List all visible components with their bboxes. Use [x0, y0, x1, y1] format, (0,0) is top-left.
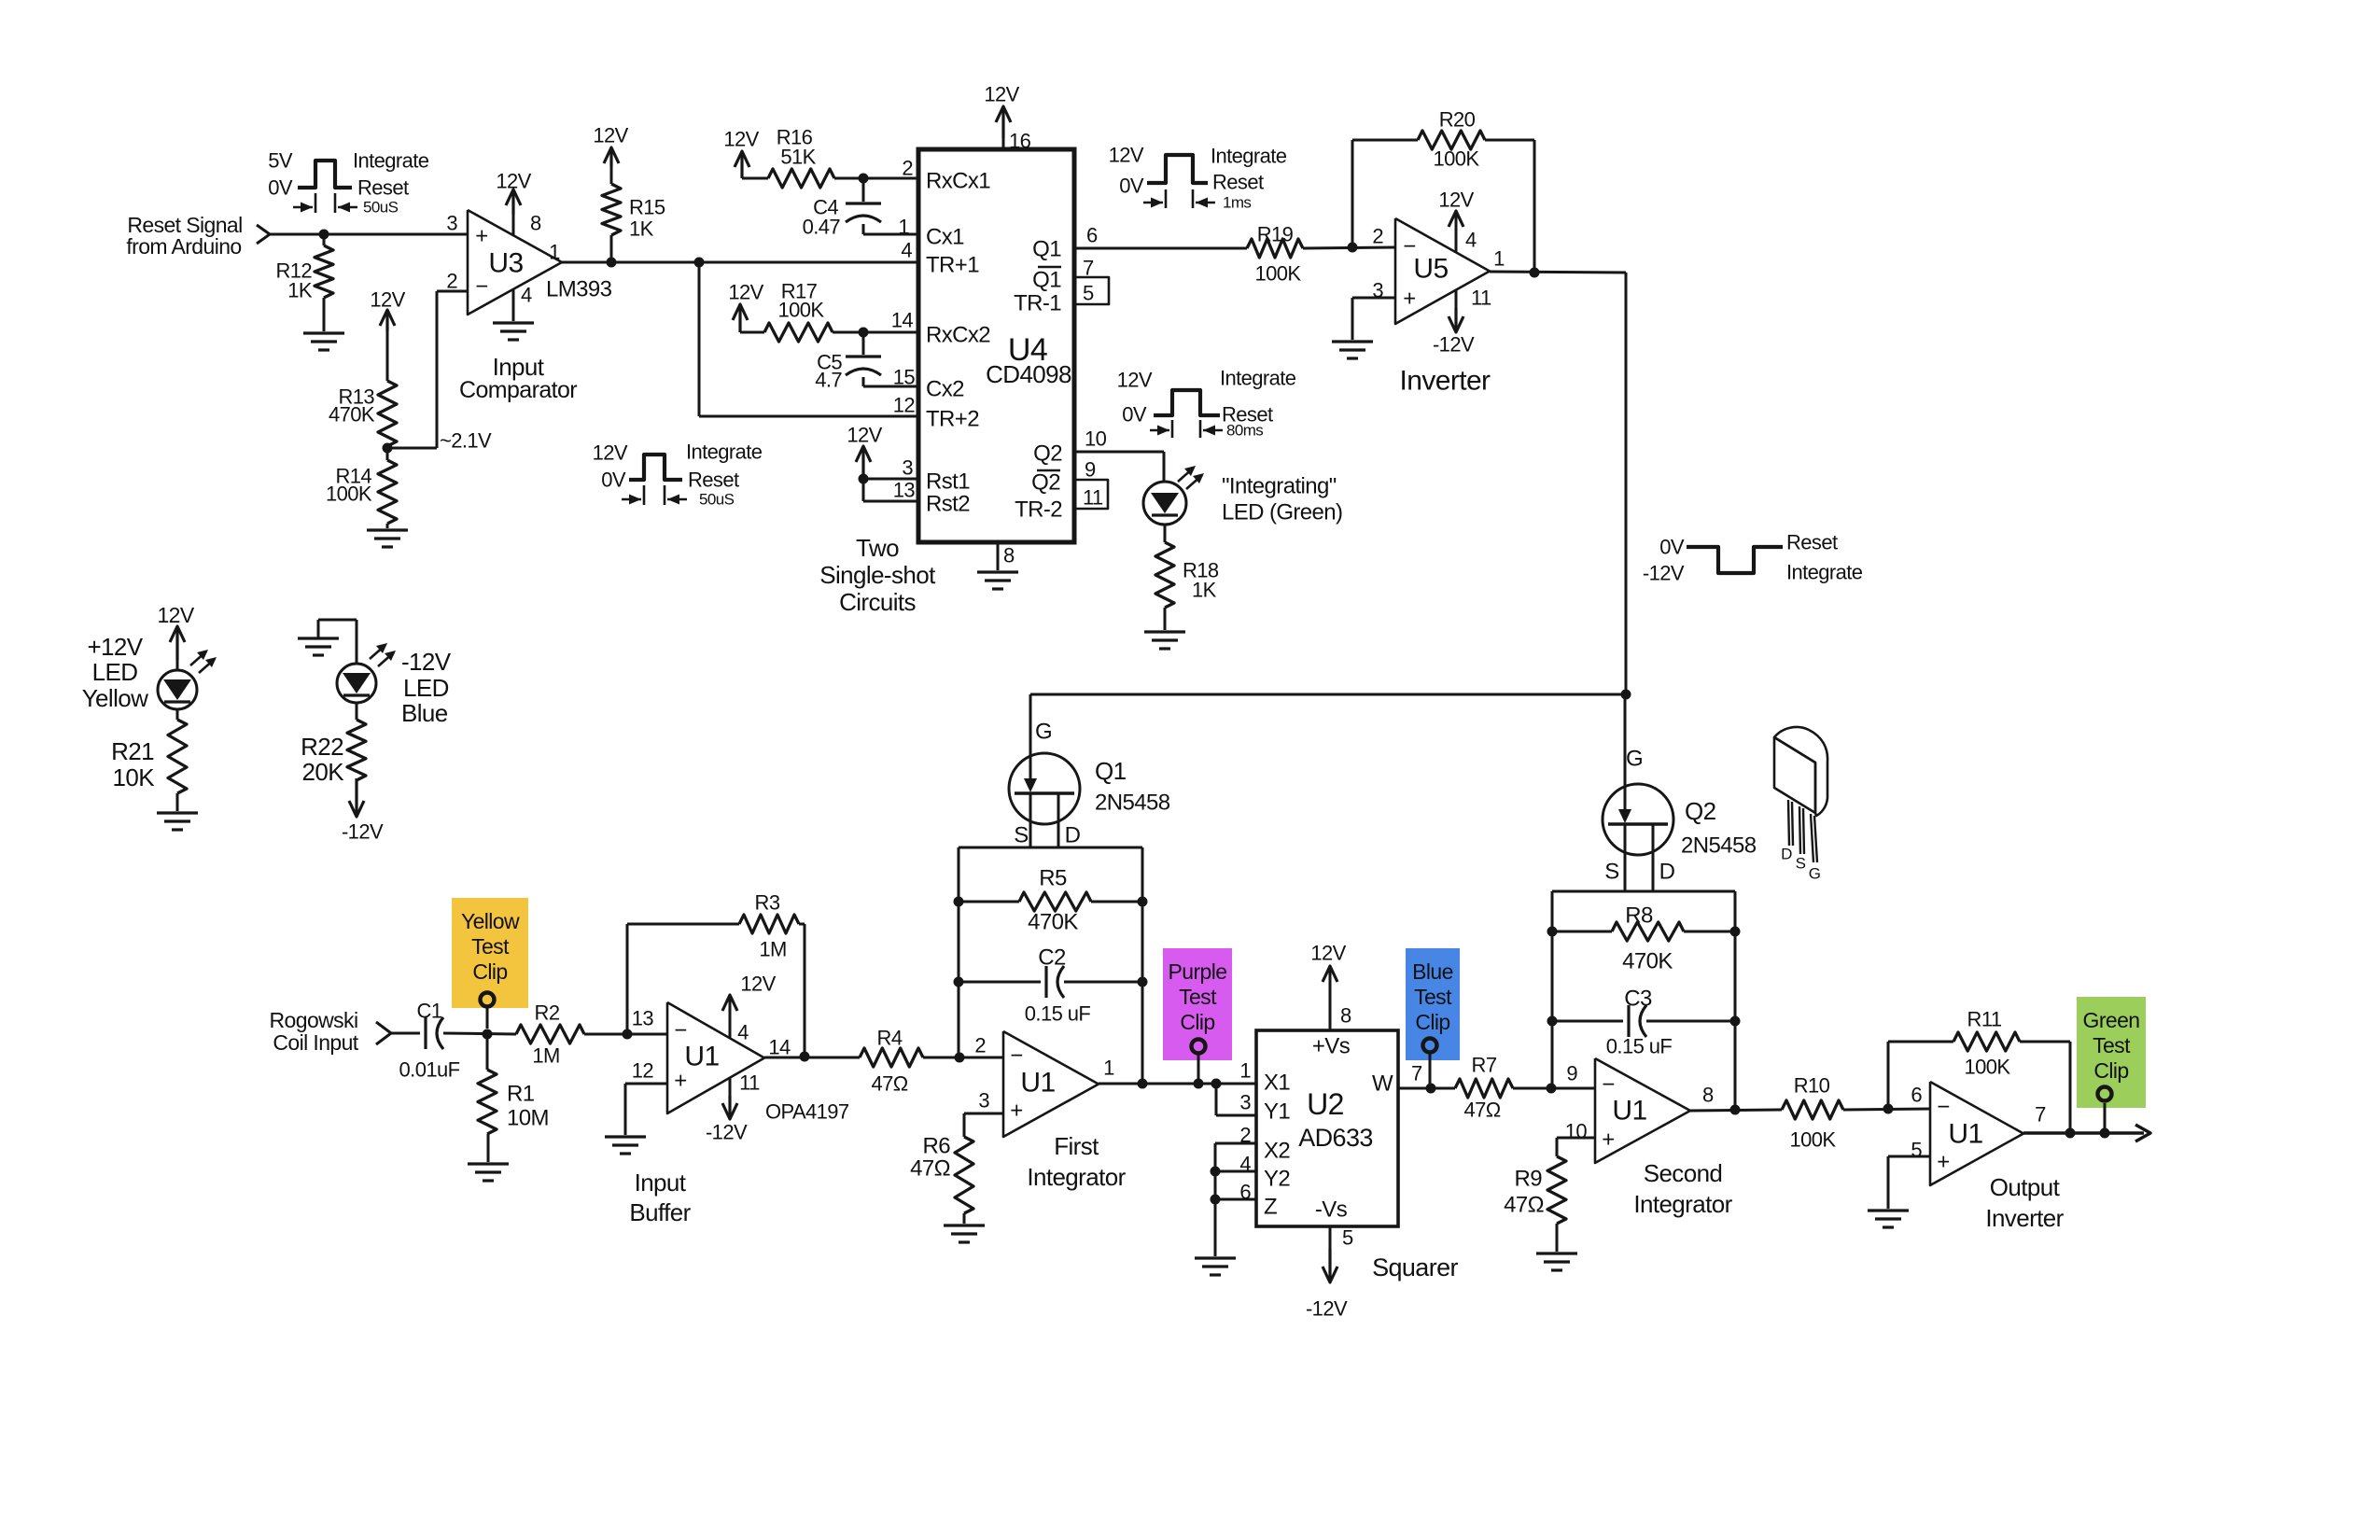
- svg-text:C1: C1: [417, 1000, 442, 1023]
- svg-text:R15: R15: [629, 196, 665, 219]
- svg-text:5: 5: [1342, 1226, 1353, 1250]
- svg-text:-12V: -12V: [401, 648, 452, 676]
- svg-text:U1: U1: [1948, 1119, 1982, 1150]
- svg-text:47Ω: 47Ω: [910, 1156, 950, 1182]
- svg-text:11: 11: [1471, 287, 1491, 310]
- svg-text:12V: 12V: [847, 424, 882, 447]
- svg-text:Circuits: Circuits: [839, 588, 916, 616]
- svg-text:Output: Output: [1990, 1173, 2061, 1201]
- svg-text:12: 12: [893, 394, 916, 417]
- svg-text:1: 1: [1239, 1059, 1251, 1083]
- svg-text:6: 6: [1239, 1181, 1251, 1204]
- svg-text:1: 1: [549, 241, 560, 264]
- svg-text:13: 13: [632, 1007, 654, 1030]
- svg-text:8: 8: [530, 212, 541, 235]
- svg-text:R5: R5: [1039, 866, 1067, 891]
- svg-text:+: +: [1937, 1150, 1949, 1175]
- svg-text:10: 10: [1085, 427, 1107, 451]
- svg-text:Test: Test: [2093, 1033, 2131, 1057]
- svg-text:Reset: Reset: [688, 469, 739, 492]
- svg-text:Blue: Blue: [401, 699, 448, 727]
- svg-text:0V: 0V: [1122, 403, 1147, 427]
- svg-text:6: 6: [1911, 1084, 1922, 1107]
- svg-text:G: G: [1809, 865, 1821, 883]
- svg-text:Test: Test: [1179, 985, 1217, 1009]
- svg-text:Reset: Reset: [357, 176, 409, 200]
- svg-text:+Vs: +Vs: [1312, 1034, 1351, 1059]
- svg-text:100K: 100K: [1434, 147, 1480, 171]
- svg-text:Q1: Q1: [1095, 757, 1127, 785]
- svg-text:Cx2: Cx2: [926, 377, 964, 402]
- svg-text:CD4098: CD4098: [986, 360, 1071, 388]
- svg-text:Purple: Purple: [1169, 959, 1227, 984]
- svg-text:47Ω: 47Ω: [1463, 1099, 1500, 1122]
- svg-text:R11: R11: [1967, 1008, 2002, 1031]
- svg-text:11: 11: [1083, 486, 1103, 510]
- svg-text:Q2: Q2: [1033, 441, 1062, 467]
- svg-text:Integrate: Integrate: [1786, 561, 1863, 584]
- svg-text:Test: Test: [471, 934, 510, 959]
- svg-text:Rst2: Rst2: [926, 492, 970, 517]
- svg-text:-12V: -12V: [1306, 1297, 1348, 1321]
- svg-text:1ms: 1ms: [1223, 194, 1251, 212]
- svg-text:2N5458: 2N5458: [1095, 791, 1170, 816]
- svg-text:-12V: -12V: [342, 820, 384, 844]
- svg-text:"Integrating": "Integrating": [1222, 474, 1337, 499]
- svg-text:12V: 12V: [1117, 369, 1153, 392]
- svg-text:W: W: [1372, 1071, 1393, 1097]
- svg-text:Integrate: Integrate: [1220, 367, 1296, 390]
- svg-text:4: 4: [901, 239, 912, 262]
- svg-text:5: 5: [1911, 1139, 1922, 1162]
- svg-text:7: 7: [2035, 1103, 2046, 1127]
- svg-text:Rst1: Rst1: [926, 469, 970, 495]
- svg-text:2N5458: 2N5458: [1681, 833, 1757, 859]
- svg-text:R2: R2: [535, 1001, 560, 1025]
- svg-text:Input: Input: [635, 1169, 687, 1197]
- svg-text:12V: 12V: [740, 973, 776, 996]
- svg-text:U2: U2: [1307, 1087, 1344, 1121]
- svg-text:Green: Green: [2083, 1008, 2140, 1032]
- svg-text:−: −: [1010, 1043, 1022, 1069]
- svg-text:R8: R8: [1625, 903, 1653, 929]
- svg-text:U5: U5: [1413, 254, 1448, 285]
- svg-text:0V: 0V: [268, 176, 293, 200]
- svg-text:Buffer: Buffer: [629, 1198, 691, 1226]
- svg-text:16: 16: [1009, 130, 1031, 153]
- svg-text:1K: 1K: [287, 279, 313, 302]
- svg-text:12V: 12V: [1310, 942, 1346, 965]
- svg-text:1K: 1K: [1192, 579, 1217, 602]
- svg-text:Z: Z: [1264, 1195, 1277, 1220]
- svg-text:Q2: Q2: [1031, 470, 1060, 496]
- svg-text:Q1: Q1: [1032, 268, 1061, 293]
- svg-text:0V: 0V: [601, 469, 626, 492]
- svg-text:8: 8: [1340, 1004, 1351, 1028]
- svg-text:0.47: 0.47: [803, 216, 841, 239]
- svg-text:12V: 12V: [1109, 144, 1144, 167]
- svg-text:4.7: 4.7: [815, 369, 842, 392]
- svg-text:12V: 12V: [157, 603, 194, 627]
- svg-text:5: 5: [1083, 282, 1094, 305]
- svg-text:U1: U1: [684, 1042, 719, 1072]
- svg-text:−: −: [1937, 1095, 1949, 1120]
- svg-text:47Ω: 47Ω: [871, 1072, 907, 1096]
- svg-text:12: 12: [632, 1059, 654, 1083]
- svg-text:LED: LED: [92, 658, 138, 686]
- svg-text:U1: U1: [1020, 1068, 1055, 1099]
- svg-text:R20: R20: [1439, 108, 1476, 132]
- svg-text:Integrate: Integrate: [1211, 145, 1287, 168]
- svg-text:47Ω: 47Ω: [1504, 1193, 1544, 1218]
- svg-text:First: First: [1054, 1132, 1099, 1160]
- svg-text:Y2: Y2: [1264, 1167, 1290, 1192]
- svg-text:R22: R22: [301, 733, 343, 761]
- svg-text:50uS: 50uS: [699, 491, 735, 509]
- svg-text:12V: 12V: [370, 288, 405, 312]
- svg-text:LM393: LM393: [546, 277, 612, 302]
- svg-text:0.15 uF: 0.15 uF: [1025, 1002, 1091, 1026]
- svg-text:0V: 0V: [1659, 536, 1685, 559]
- svg-text:Inverter: Inverter: [1400, 366, 1491, 397]
- svg-text:from Arduino: from Arduino: [126, 234, 241, 259]
- svg-text:8: 8: [1003, 544, 1015, 567]
- svg-text:12V: 12V: [728, 281, 763, 304]
- svg-text:RxCx2: RxCx2: [926, 323, 990, 348]
- svg-text:1: 1: [1493, 247, 1505, 271]
- svg-text:~2.1V: ~2.1V: [440, 429, 492, 453]
- svg-text:TR-2: TR-2: [1015, 497, 1062, 523]
- svg-text:12V: 12V: [593, 124, 628, 147]
- svg-text:100K: 100K: [778, 299, 825, 322]
- svg-text:9: 9: [1085, 458, 1096, 482]
- svg-text:100K: 100K: [1965, 1056, 2011, 1079]
- svg-text:+: +: [1602, 1127, 1614, 1153]
- svg-text:3: 3: [1239, 1091, 1251, 1114]
- svg-text:−: −: [475, 274, 487, 300]
- svg-text:G: G: [1626, 747, 1643, 772]
- svg-text:20K: 20K: [302, 758, 345, 786]
- svg-text:S: S: [1014, 823, 1028, 848]
- svg-text:Clip: Clip: [1415, 1010, 1449, 1034]
- svg-text:Reset: Reset: [1212, 171, 1264, 194]
- svg-text:R10: R10: [1794, 1074, 1830, 1098]
- svg-text:2: 2: [446, 270, 457, 293]
- svg-text:Yellow: Yellow: [82, 684, 148, 712]
- svg-text:1: 1: [898, 216, 909, 239]
- svg-text:6: 6: [1086, 224, 1098, 247]
- svg-text:8: 8: [1702, 1084, 1714, 1107]
- svg-text:Y1: Y1: [1264, 1099, 1290, 1125]
- svg-text:51K: 51K: [780, 146, 816, 169]
- svg-text:470K: 470K: [1622, 949, 1673, 974]
- svg-text:100K: 100K: [1255, 262, 1302, 286]
- svg-text:Two: Two: [856, 534, 899, 562]
- svg-text:1: 1: [1103, 1057, 1114, 1080]
- svg-text:U3: U3: [488, 248, 523, 279]
- svg-text:R19: R19: [1257, 223, 1294, 246]
- svg-text:10: 10: [1565, 1120, 1588, 1143]
- svg-text:3: 3: [902, 456, 913, 480]
- svg-text:Cx1: Cx1: [926, 225, 964, 250]
- svg-text:1M: 1M: [759, 938, 786, 961]
- svg-text:3: 3: [446, 212, 457, 235]
- svg-text:Reset: Reset: [1786, 531, 1838, 554]
- svg-text:Clip: Clip: [472, 959, 507, 984]
- svg-text:2: 2: [974, 1034, 986, 1057]
- svg-text:-12V: -12V: [706, 1121, 748, 1144]
- svg-text:−: −: [1602, 1072, 1614, 1098]
- svg-text:LED: LED: [403, 674, 449, 702]
- svg-text:Coil Input: Coil Input: [273, 1030, 358, 1055]
- svg-text:Blue: Blue: [1412, 959, 1453, 984]
- svg-text:10M: 10M: [507, 1106, 549, 1131]
- svg-text:4: 4: [521, 284, 532, 307]
- svg-text:12V: 12V: [984, 83, 1019, 106]
- svg-text:Yellow: Yellow: [461, 909, 520, 933]
- svg-text:OPA4197: OPA4197: [765, 1100, 849, 1124]
- svg-text:+: +: [674, 1069, 686, 1094]
- svg-text:1M: 1M: [532, 1044, 559, 1068]
- svg-text:12V: 12V: [723, 128, 759, 151]
- svg-text:7: 7: [1083, 257, 1094, 280]
- svg-text:14: 14: [891, 309, 914, 332]
- svg-text:2: 2: [1372, 225, 1383, 248]
- svg-text:0.01uF: 0.01uF: [399, 1058, 460, 1082]
- svg-text:Integrate: Integrate: [686, 441, 763, 464]
- svg-text:TR-1: TR-1: [1014, 291, 1061, 316]
- svg-text:+: +: [1010, 1099, 1022, 1124]
- svg-text:R1: R1: [507, 1082, 535, 1107]
- svg-text:R9: R9: [1515, 1167, 1543, 1192]
- svg-text:Comparator: Comparator: [459, 377, 577, 403]
- svg-text:R6: R6: [923, 1134, 951, 1159]
- svg-text:R3: R3: [755, 891, 780, 915]
- svg-text:C2: C2: [1038, 945, 1066, 971]
- svg-text:R21: R21: [111, 737, 154, 765]
- svg-text:TR+1: TR+1: [926, 253, 979, 278]
- svg-text:7: 7: [1411, 1062, 1422, 1085]
- svg-text:X2: X2: [1264, 1139, 1290, 1164]
- svg-text:2: 2: [902, 157, 913, 180]
- svg-text:Squarer: Squarer: [1372, 1253, 1458, 1281]
- svg-text:Q1: Q1: [1032, 237, 1061, 262]
- svg-text:Clip: Clip: [2093, 1058, 2128, 1083]
- svg-text:-12V: -12V: [1643, 562, 1685, 585]
- svg-text:470K: 470K: [329, 403, 375, 427]
- svg-text:C3: C3: [1624, 987, 1652, 1012]
- svg-text:G: G: [1035, 720, 1052, 745]
- svg-text:Integrate: Integrate: [353, 149, 429, 173]
- svg-text:Rogowski: Rogowski: [270, 1008, 358, 1032]
- svg-text:11: 11: [739, 1071, 760, 1095]
- svg-text:Q2: Q2: [1685, 797, 1716, 825]
- svg-text:4: 4: [1465, 229, 1477, 252]
- svg-text:15: 15: [893, 366, 916, 389]
- svg-text:+: +: [475, 224, 487, 249]
- svg-text:3: 3: [978, 1089, 989, 1113]
- svg-text:Clip: Clip: [1180, 1010, 1214, 1034]
- svg-text:R7: R7: [1472, 1054, 1497, 1077]
- svg-text:D: D: [1781, 846, 1792, 863]
- svg-text:Inverter: Inverter: [1985, 1204, 2064, 1232]
- svg-text:2: 2: [1239, 1124, 1251, 1147]
- svg-text:-Vs: -Vs: [1315, 1197, 1348, 1223]
- svg-text:D: D: [1065, 823, 1081, 848]
- svg-text:U1: U1: [1612, 1096, 1646, 1127]
- svg-text:Second: Second: [1644, 1159, 1723, 1187]
- svg-text:LED (Green): LED (Green): [1222, 500, 1342, 525]
- svg-text:+12V: +12V: [87, 633, 143, 661]
- svg-text:Integrator: Integrator: [1027, 1163, 1126, 1191]
- svg-text:Reset: Reset: [1222, 403, 1273, 427]
- svg-text:+: +: [1403, 287, 1415, 312]
- svg-text:5V: 5V: [268, 149, 293, 173]
- svg-text:-12V: -12V: [1433, 333, 1475, 357]
- svg-text:4: 4: [737, 1021, 749, 1044]
- svg-text:TR+2: TR+2: [926, 407, 979, 432]
- svg-text:9: 9: [1566, 1062, 1577, 1085]
- svg-text:RxCx1: RxCx1: [926, 169, 990, 194]
- svg-text:100K: 100K: [1790, 1128, 1837, 1152]
- svg-text:Single-shot: Single-shot: [819, 561, 936, 589]
- svg-text:470K: 470K: [1028, 910, 1078, 935]
- svg-text:Integrator: Integrator: [1633, 1190, 1732, 1218]
- svg-text:Test: Test: [1414, 985, 1452, 1009]
- svg-text:100K: 100K: [326, 483, 372, 506]
- svg-text:D: D: [1659, 860, 1675, 885]
- svg-text:S: S: [1604, 860, 1618, 885]
- svg-text:X1: X1: [1264, 1071, 1290, 1096]
- svg-text:4: 4: [1239, 1153, 1251, 1176]
- svg-text:12V: 12V: [496, 170, 531, 193]
- svg-text:14: 14: [768, 1036, 791, 1059]
- svg-text:AD633: AD633: [1298, 1124, 1373, 1152]
- svg-text:0V: 0V: [1119, 175, 1144, 198]
- svg-text:S: S: [1796, 855, 1806, 873]
- svg-text:50uS: 50uS: [363, 199, 399, 217]
- svg-text:R4: R4: [877, 1027, 903, 1050]
- svg-text:1K: 1K: [629, 217, 654, 241]
- svg-text:13: 13: [893, 479, 916, 502]
- svg-text:10K: 10K: [113, 763, 156, 791]
- svg-text:0.15 uF: 0.15 uF: [1606, 1035, 1673, 1058]
- svg-text:−: −: [674, 1018, 686, 1043]
- svg-text:12V: 12V: [1438, 189, 1474, 212]
- svg-text:12V: 12V: [593, 441, 628, 465]
